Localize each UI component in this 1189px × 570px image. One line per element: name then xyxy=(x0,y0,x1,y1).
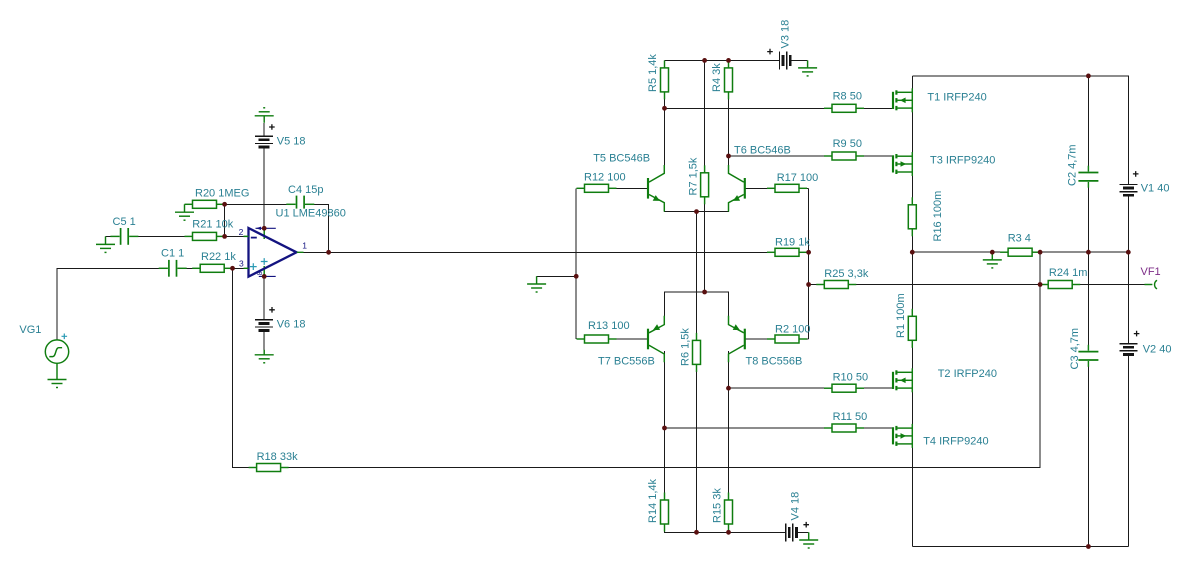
svg-text:R24 1m: R24 1m xyxy=(1049,267,1088,279)
wire V4 to ground xyxy=(797,531,809,533)
resistor R16 xyxy=(911,197,913,205)
battery V5 18 xyxy=(255,135,273,137)
resistor R20 xyxy=(185,203,193,205)
resistor R9 xyxy=(824,155,832,157)
svg-text:R1 100m: R1 100m xyxy=(895,293,907,338)
svg-text:R22 1k: R22 1k xyxy=(201,251,236,263)
svg-text:C3 4,7m: C3 4,7m xyxy=(1069,328,1081,370)
svg-text:R21 10k: R21 10k xyxy=(192,219,233,231)
wire VG1 to C1 / op-amp pin3 row xyxy=(57,268,161,340)
wire R6 drop from emitter rail xyxy=(696,212,698,533)
battery V4 18 xyxy=(785,523,787,541)
wire bottom negative rail xyxy=(912,546,1128,548)
svg-text:R4 3k: R4 3k xyxy=(711,63,723,92)
wire R25 R24 VF1 row xyxy=(809,284,1145,286)
svg-text:2: 2 xyxy=(239,227,244,237)
wire op-amp V- pin to V6 xyxy=(263,276,265,349)
resistor R6 xyxy=(696,333,698,341)
wire R15 bottom lead xyxy=(728,525,730,533)
battery V3 18 xyxy=(779,51,781,69)
wire mid rail xyxy=(912,251,1128,253)
ground R3 xyxy=(991,252,993,260)
wire T5 collector up xyxy=(664,108,666,166)
svg-text:VF1: VF1 xyxy=(1141,266,1161,278)
ground V5 top xyxy=(263,115,265,117)
svg-text:T8 BC556B: T8 BC556B xyxy=(746,356,803,368)
wire output MOSFET column xyxy=(911,76,913,547)
MOSFET T4 IRFP9240 xyxy=(892,427,894,444)
capacitor C4 xyxy=(296,196,298,209)
svg-text:R17 100: R17 100 xyxy=(777,172,819,184)
wire R10 row xyxy=(729,387,894,389)
svg-text:V2 40: V2 40 xyxy=(1143,344,1172,356)
svg-text:V5 18: V5 18 xyxy=(277,136,306,148)
svg-text:T3 IRFP9240: T3 IRFP9240 xyxy=(930,154,995,166)
svg-text:V4 18: V4 18 xyxy=(790,492,802,521)
wire C3 column xyxy=(1087,252,1089,546)
ground V3 xyxy=(807,60,809,68)
resistor R13 xyxy=(577,338,585,340)
resistor R11 xyxy=(824,427,832,429)
wire top positive rail to V1 xyxy=(912,76,1128,184)
wire R4 bottom to T6 collector node xyxy=(728,92,730,156)
capacitor C1 xyxy=(168,260,170,277)
wire T6 base to R17 to right column xyxy=(746,187,809,189)
svg-text:T7 BC556B: T7 BC556B xyxy=(598,356,655,368)
wire V1 bottom to mid rail xyxy=(1127,196,1129,252)
svg-text:3: 3 xyxy=(239,258,244,268)
wire lower emitter rail xyxy=(665,292,729,317)
ground R20 xyxy=(184,204,186,212)
resistor R18 xyxy=(249,467,257,469)
ground driver bases xyxy=(536,276,538,284)
resistor R24 xyxy=(1040,284,1048,286)
MOSFET T1 IRFP240 xyxy=(892,92,894,109)
resistor R2 xyxy=(767,338,775,340)
svg-text:R13 100: R13 100 xyxy=(588,320,630,332)
resistor R25 xyxy=(816,284,824,286)
ground C5 xyxy=(105,236,107,244)
resistor R10 xyxy=(824,387,832,389)
resistor R3 xyxy=(1000,251,1008,253)
svg-text:R7 1,5k: R7 1,5k xyxy=(687,157,699,195)
svg-text:C2 4,7m: C2 4,7m xyxy=(1067,144,1079,186)
MOSFET T3 IRFP9240 xyxy=(892,155,894,172)
svg-text:R9 50: R9 50 xyxy=(833,138,862,150)
wire bottom bias rail to V4 xyxy=(665,525,786,533)
ground V4 xyxy=(808,532,810,540)
transistor T5 BC546B xyxy=(647,178,649,199)
resistor R1 xyxy=(911,309,913,317)
wire C1 to R22 to op-amp pin3 xyxy=(178,267,249,269)
wire op-amp output row to R19 and right column xyxy=(297,251,809,253)
resistor R21 xyxy=(185,235,193,237)
transistor T6 BC546B xyxy=(744,178,746,199)
resistor R14 xyxy=(664,493,666,501)
resistor R22 xyxy=(192,267,200,269)
wire V3 to ground xyxy=(791,59,808,61)
svg-text:C1 1: C1 1 xyxy=(161,248,184,260)
resistor R12 xyxy=(577,187,585,189)
wire R9 row to T3 gate xyxy=(729,155,894,157)
battery V1 40 xyxy=(1119,183,1137,185)
wire V2 column xyxy=(1127,252,1129,546)
svg-text:R19 1k: R19 1k xyxy=(775,236,810,248)
voltage generator VG1 xyxy=(45,340,68,363)
svg-text:R20 1MEG: R20 1MEG xyxy=(195,187,249,199)
resistor R15 xyxy=(728,493,730,501)
svg-text:T1 IRFP240: T1 IRFP240 xyxy=(927,92,986,104)
wire R12 left column to R13 xyxy=(575,188,577,339)
svg-text:U1 LME49860: U1 LME49860 xyxy=(276,208,346,220)
transistor T8 BC556B xyxy=(744,329,746,350)
svg-text:V1 40: V1 40 xyxy=(1141,183,1170,195)
svg-text:R8 50: R8 50 xyxy=(833,91,862,103)
svg-text:R16 100m: R16 100m xyxy=(932,191,944,242)
svg-text:V6 18: V6 18 xyxy=(277,319,306,331)
wire T8 collector down to R10 node and R15 xyxy=(728,351,730,500)
resistor R19 xyxy=(767,251,775,253)
wire feedback R18 row xyxy=(233,252,1041,467)
MOSFET T2 IRFP240 xyxy=(892,372,894,389)
svg-text:R10 50: R10 50 xyxy=(833,371,868,383)
svg-text:V3 18: V3 18 xyxy=(779,20,791,49)
capacitor C5 xyxy=(120,228,122,245)
wire V5 minus to op-amp V+ pin xyxy=(263,123,265,229)
wire C4 right to output node xyxy=(305,204,328,252)
resistor R5 xyxy=(664,60,666,68)
svg-text:C5 1: C5 1 xyxy=(113,216,136,228)
resistor R8 xyxy=(824,107,832,109)
capacitor C3 xyxy=(1078,351,1098,353)
svg-text:R18 33k: R18 33k xyxy=(257,451,298,463)
wire R7 top feed xyxy=(704,60,706,172)
svg-text:R2 100: R2 100 xyxy=(775,323,810,335)
battery V6 18 xyxy=(255,319,273,321)
wire C5 left lead xyxy=(106,235,120,237)
wire R20 node to R21 node xyxy=(224,204,226,236)
svg-text:VG1: VG1 xyxy=(19,324,41,336)
wire R13 row to T7 base xyxy=(585,338,649,340)
wire R12 row to T5 base xyxy=(585,187,649,189)
wire T6 collector up xyxy=(728,156,730,166)
battery V2 40 xyxy=(1119,343,1137,345)
svg-text:C4 15p: C4 15p xyxy=(288,184,323,196)
wire C2 column xyxy=(1087,76,1089,252)
svg-text:T4 IRFP9240: T4 IRFP9240 xyxy=(923,436,988,448)
ground VG1 xyxy=(56,363,58,379)
resistor R17 xyxy=(767,187,775,189)
output pin VF1 xyxy=(1145,284,1153,286)
svg-text:T5 BC546B: T5 BC546B xyxy=(593,153,650,165)
svg-text:R3 4: R3 4 xyxy=(1008,233,1031,245)
capacitor C2 xyxy=(1078,172,1098,174)
wire T7 collector down to R11 node and R14 xyxy=(664,351,666,500)
svg-text:1: 1 xyxy=(302,241,307,251)
wire right bias column xyxy=(808,188,810,339)
resistor R4 xyxy=(728,60,730,68)
svg-text:R25 3,3k: R25 3,3k xyxy=(824,268,869,280)
svg-text:R12 100: R12 100 xyxy=(584,171,626,183)
svg-text:T6 BC546B: T6 BC546B xyxy=(734,145,791,157)
wire C5 to R21 to op-amp pin2 xyxy=(129,235,248,237)
svg-text:R6 1,5k: R6 1,5k xyxy=(679,328,691,366)
wire R11 row xyxy=(665,427,894,429)
wire V3 positive rail xyxy=(665,59,780,61)
wire upper emitter rail xyxy=(665,203,729,212)
wire R20 row to C4 left xyxy=(185,203,296,205)
svg-text:R11 50: R11 50 xyxy=(833,411,868,423)
wire R5 bottom to R8 row to T1 gate xyxy=(665,92,894,108)
ground V6 bottom xyxy=(263,350,265,355)
svg-text:R14 1,4k: R14 1,4k xyxy=(647,478,659,523)
transistor T7 BC556B xyxy=(647,329,649,350)
svg-text:R15 3k: R15 3k xyxy=(711,488,723,523)
wire R7 bottom to lower rail xyxy=(704,197,706,293)
wire ground tap mid xyxy=(537,275,577,277)
resistor R7 xyxy=(704,165,706,173)
op-amp U1 LME49860 xyxy=(249,228,297,277)
svg-text:T2 IRFP240: T2 IRFP240 xyxy=(938,368,997,380)
svg-text:R5 1,4k: R5 1,4k xyxy=(647,54,659,92)
wire T8 base to R2 row xyxy=(746,338,809,340)
